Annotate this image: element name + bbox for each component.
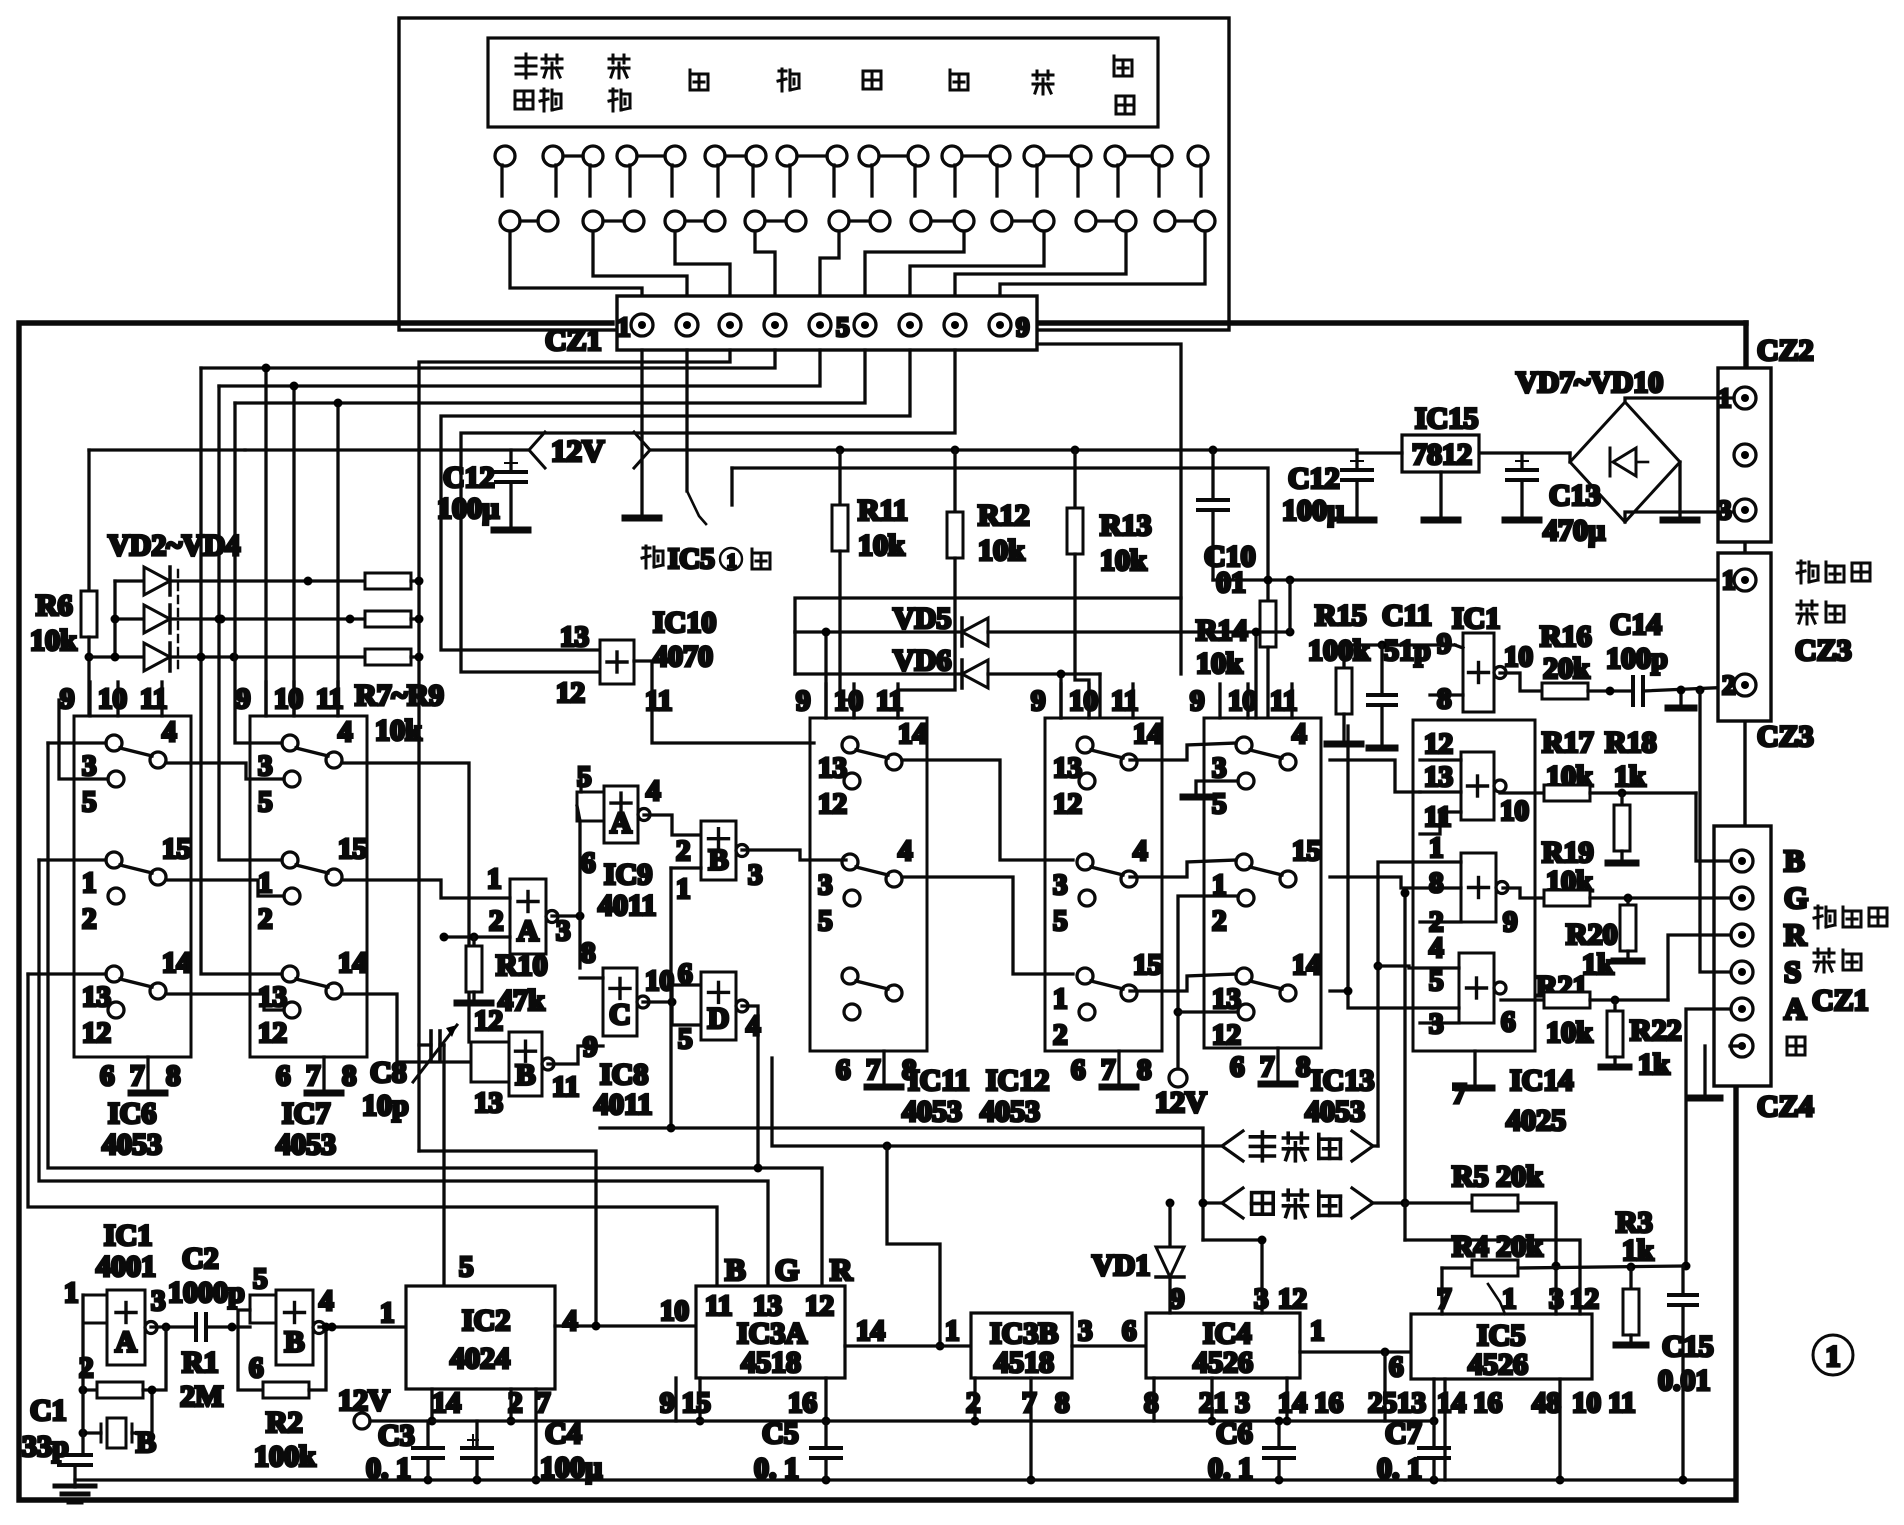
svg-text:R12: R12	[978, 499, 1030, 532]
svg-text:6: 6	[249, 1352, 264, 1384]
wire IC12 throw4 to IC13 common1	[1130, 860, 1236, 877]
svg-text:VD7~VD10: VD7~VD10	[1516, 366, 1663, 399]
svg-text:10: 10	[1500, 795, 1529, 827]
capacitor C13 470u	[1520, 453, 1523, 470]
IC12 4053 analog switch	[1045, 718, 1162, 1051]
wire 12V rail	[245, 448, 527, 451]
svg-text:1: 1	[1826, 1340, 1841, 1373]
svg-text:13: 13	[1212, 983, 1241, 1015]
svg-text:8: 8	[166, 1060, 181, 1092]
wire 7812 out to 12V rail / capacitor C12b	[1357, 451, 1402, 454]
wire IC6 pin5 feed	[59, 700, 108, 779]
svg-text:7: 7	[1260, 1051, 1275, 1083]
svg-text:R6: R6	[36, 589, 73, 622]
svg-text:R20: R20	[1566, 918, 1618, 951]
svg-text:9: 9	[1016, 312, 1030, 342]
wire C14 node down to CZ4 S	[1700, 690, 1730, 972]
svg-text:5: 5	[1212, 788, 1227, 820]
svg-text:CZ4: CZ4	[1757, 1090, 1814, 1123]
svg-text:20k: 20k	[1543, 652, 1590, 685]
wire IC11 throw14 to IC12	[902, 760, 1073, 860]
svg-text:10k: 10k	[1546, 1016, 1593, 1049]
svg-text:12: 12	[818, 788, 847, 820]
gate IC14-3	[1459, 953, 1494, 1023]
svg-text:1: 1	[945, 1315, 960, 1347]
svg-text:6: 6	[276, 1060, 291, 1092]
svg-text:R22: R22	[1630, 1014, 1682, 1047]
wire IC7 throw4 to IC8 B stub	[342, 763, 469, 1042]
wire CZ1 pin8 bus to IC10 pin12/IC9	[461, 350, 955, 672]
svg-text:12: 12	[1570, 1283, 1599, 1315]
wire panel contacts to CZ1 pins	[510, 231, 642, 298]
svg-text:3: 3	[818, 869, 833, 901]
ground IC13 pin5	[1196, 781, 1238, 794]
wire right border into CZ2	[1743, 323, 1748, 368]
diode VD4	[89, 655, 144, 658]
svg-text:10k: 10k	[978, 534, 1025, 567]
svg-text:7: 7	[1022, 1387, 1037, 1419]
svg-text:0. 1: 0. 1	[366, 1452, 411, 1485]
resistor R12 10k	[953, 450, 956, 512]
wire IC7 throw14 to trimmer line	[342, 994, 471, 1062]
svg-text:7: 7	[1452, 1078, 1467, 1110]
svg-text:51p: 51p	[1384, 634, 1431, 667]
svg-text:10: 10	[660, 1295, 689, 1327]
svg-text:12V: 12V	[1155, 1086, 1207, 1119]
svg-text:CZ3: CZ3	[1757, 720, 1814, 753]
svg-text:R13: R13	[1100, 509, 1152, 542]
svg-text:1000p: 1000p	[168, 1276, 245, 1309]
svg-text:4526: 4526	[1468, 1348, 1528, 1381]
wire IC1B out to IC2 pin1	[319, 1325, 406, 1328]
svg-text:13: 13	[1053, 752, 1082, 784]
svg-text:10k: 10k	[1100, 544, 1147, 577]
ground after C14	[1679, 690, 1682, 704]
svg-text:2: 2	[489, 905, 504, 937]
svg-text:1k: 1k	[1638, 1048, 1670, 1081]
svg-text:3: 3	[1053, 869, 1068, 901]
svg-text:10: 10	[1228, 685, 1257, 717]
svg-text:A: A	[610, 807, 632, 840]
node 行消稳 (line blanking)	[1222, 1131, 1243, 1161]
wire line-blank vertical to IC14-2 pin1	[1378, 862, 1461, 1146]
svg-text:13: 13	[82, 981, 111, 1013]
svg-text:4053: 4053	[276, 1128, 336, 1161]
svg-text:15: 15	[338, 833, 367, 865]
svg-text:R: R	[1784, 917, 1807, 952]
svg-text:13: 13	[560, 621, 589, 653]
svg-text:7: 7	[536, 1387, 551, 1419]
svg-text:11: 11	[1424, 801, 1451, 833]
svg-text:5: 5	[82, 786, 97, 818]
svg-text:10: 10	[1069, 685, 1098, 717]
svg-text:C13: C13	[1549, 479, 1601, 512]
svg-text:CZ3: CZ3	[1795, 634, 1852, 667]
IC6 4053 analog switch	[74, 716, 191, 1057]
svg-text:4: 4	[1292, 718, 1307, 750]
svg-text:16: 16	[788, 1387, 817, 1419]
wire second rail to CZ3 pin1	[1213, 578, 1734, 581]
connector CZ4	[1714, 826, 1771, 1086]
svg-text:IC11: IC11	[908, 1064, 970, 1097]
svg-text:12: 12	[1424, 728, 1453, 760]
svg-text:12V: 12V	[551, 433, 605, 468]
svg-text:VD5: VD5	[893, 602, 951, 635]
svg-text:0. 1: 0. 1	[1208, 1452, 1253, 1485]
svg-text:5: 5	[678, 1023, 693, 1055]
label box (pattern names)	[488, 38, 1158, 127]
svg-text:3: 3	[1718, 495, 1732, 525]
svg-text:C12: C12	[443, 461, 495, 494]
svg-text:100p: 100p	[1606, 642, 1668, 675]
capacitor C4 100u electrolytic	[475, 1421, 478, 1448]
diode VD3	[115, 617, 144, 620]
svg-text:8: 8	[1296, 1051, 1311, 1083]
svg-text:1: 1	[676, 873, 691, 905]
connector CZ1	[617, 296, 1037, 350]
svg-text:1: 1	[258, 867, 273, 899]
svg-text:4: 4	[162, 716, 177, 748]
svg-text:10: 10	[98, 683, 127, 715]
gate IC14-2	[1461, 853, 1496, 922]
svg-text:C3: C3	[378, 1419, 415, 1452]
wire R17 node to CZ4 B	[1696, 793, 1730, 861]
svg-text:4: 4	[1133, 835, 1148, 867]
svg-text:100k: 100k	[254, 1440, 316, 1473]
svg-text:14: 14	[1133, 718, 1162, 750]
svg-text:11: 11	[645, 685, 672, 717]
node pattern labels 复彩/合条 彩/条 蓝 绿 红 格 点 棋/盘	[516, 54, 536, 78]
svg-text:8: 8	[1144, 1387, 1159, 1419]
wire IC12 throw14 to IC13 common3	[1130, 743, 1236, 760]
gate IC8D 4011	[701, 972, 736, 1040]
wire 7812 ground pin	[1439, 472, 1442, 515]
wire IC9A stub feed	[579, 768, 582, 792]
svg-text:10: 10	[645, 965, 674, 997]
wire IC4 pins to rails	[1152, 1378, 1155, 1421]
svg-text:4024: 4024	[450, 1342, 510, 1375]
svg-text:C7: C7	[1385, 1417, 1422, 1450]
wire IC6 common13 to B line	[28, 972, 106, 975]
wire trimmer right to IC2 pin5	[442, 1045, 445, 1286]
svg-text:13: 13	[1424, 761, 1453, 793]
resistor R10 47k	[472, 937, 475, 946]
svg-text:IC15: IC15	[1415, 402, 1478, 435]
svg-text:5: 5	[1053, 905, 1068, 937]
svg-text:4526: 4526	[1193, 1346, 1253, 1379]
capacitor C12 100u (left)	[509, 450, 512, 472]
svg-text:1: 1	[487, 863, 502, 895]
IC3B 4518	[971, 1313, 1072, 1378]
svg-text:2M: 2M	[180, 1380, 223, 1413]
svg-text:3: 3	[258, 750, 273, 782]
resistor R8 10k	[365, 611, 411, 627]
svg-text:B: B	[725, 1252, 746, 1287]
wire 12V power rail bottom	[432, 1419, 1434, 1422]
wire CZ2-CZ3 link	[1743, 542, 1746, 553]
svg-text:6: 6	[1071, 1054, 1086, 1086]
svg-text:C6: C6	[1216, 1417, 1253, 1450]
svg-text:9: 9	[1170, 1283, 1185, 1315]
resistor R7 10k	[365, 573, 411, 589]
wire secondary rail y468	[732, 468, 1268, 601]
svg-text:48: 48	[1532, 1387, 1561, 1419]
wire IC13 throw14 to IC14-3 pin5	[1330, 991, 1459, 1008]
svg-text:11: 11	[552, 1071, 579, 1103]
svg-text:5: 5	[836, 312, 850, 342]
svg-text:2: 2	[1722, 670, 1736, 700]
svg-text:12: 12	[82, 1017, 111, 1049]
IC13 4053 analog switch	[1204, 718, 1321, 1048]
crystal B	[107, 1418, 126, 1448]
svg-text:IC1: IC1	[1452, 602, 1500, 635]
svg-text:7812: 7812	[1412, 438, 1472, 471]
svg-text:8: 8	[1437, 683, 1452, 715]
wire bridge right vertex to ground	[1678, 462, 1681, 515]
node 去编码电路 CZ3	[1797, 561, 1818, 583]
svg-text:0. 1: 0. 1	[754, 1452, 799, 1485]
wire bridge to CZ2 pin1	[1625, 398, 1734, 402]
svg-text:3: 3	[556, 915, 571, 947]
svg-text:2: 2	[82, 903, 97, 935]
wire CZ1 pin6 bus to IC7 pin11	[235, 350, 865, 403]
wire IC6 throws cascade to IC7	[166, 763, 284, 779]
wire IC3A pins down	[674, 1378, 677, 1421]
wire IC8C out to IC8D	[643, 1000, 672, 1003]
svg-text:4: 4	[646, 775, 661, 807]
svg-text:2: 2	[676, 835, 691, 867]
wire R7-R9 common column	[411, 579, 419, 582]
svg-text:R7~R9: R7~R9	[355, 679, 444, 712]
IC2 4024 counter	[406, 1286, 555, 1389]
svg-text:8: 8	[581, 937, 596, 969]
svg-text:10: 10	[274, 683, 303, 715]
wire to IC14-3 pin4	[1378, 966, 1459, 968]
svg-text:IC1: IC1	[104, 1219, 152, 1252]
svg-text:8: 8	[1055, 1387, 1070, 1419]
svg-text:7: 7	[1437, 1283, 1452, 1315]
IC11 4053 analog switch	[810, 718, 927, 1051]
svg-text:R2: R2	[266, 1406, 303, 1439]
wire IC9B in1 long net horizontal	[600, 1126, 671, 1129]
svg-text:1k: 1k	[1622, 1234, 1654, 1267]
svg-text:12: 12	[1053, 788, 1082, 820]
node 去编码电路 CZ1	[1814, 906, 1835, 928]
svg-text:7: 7	[1101, 1054, 1116, 1086]
svg-text:4025: 4025	[1506, 1104, 1566, 1137]
svg-text:14: 14	[856, 1315, 885, 1347]
wire bridge to CZ2 pin3	[1625, 512, 1734, 522]
wire IC11 switch feeds	[824, 632, 827, 718]
node circled 1	[1813, 1335, 1853, 1375]
connector CZ3	[1718, 553, 1771, 721]
IC3A 4518	[696, 1286, 845, 1378]
svg-text:10k: 10k	[1196, 647, 1243, 680]
svg-text:4053: 4053	[980, 1095, 1040, 1128]
wire CZ3-CZ4 link	[1743, 721, 1746, 826]
top panel enclosure	[399, 18, 1229, 330]
svg-text:8: 8	[1137, 1054, 1152, 1086]
svg-text:C2: C2	[182, 1242, 219, 1275]
svg-text:R10: R10	[496, 949, 548, 982]
svg-text:100µ: 100µ	[540, 1451, 602, 1484]
svg-text:8: 8	[342, 1060, 357, 1092]
svg-text:5: 5	[1429, 965, 1444, 997]
svg-text:10p: 10p	[362, 1089, 409, 1122]
wire CZ1 pin7 bus to IC10 pin13	[441, 350, 910, 650]
svg-text:2: 2	[258, 903, 273, 935]
svg-text:5: 5	[258, 786, 273, 818]
wire top border right of CZ1	[1037, 320, 1746, 325]
svg-text:R17: R17	[1542, 726, 1594, 759]
svg-text:11: 11	[705, 1290, 732, 1322]
svg-text:4: 4	[1429, 932, 1444, 964]
svg-text:VD6: VD6	[893, 644, 951, 677]
svg-text:10: 10	[1504, 641, 1533, 673]
svg-text:3: 3	[1212, 752, 1227, 784]
svg-text:4001: 4001	[96, 1250, 156, 1283]
svg-text:6: 6	[100, 1060, 115, 1092]
node 场消稳 (field blanking)	[1222, 1188, 1243, 1218]
wire IC13 throw4 to IC14-1	[1330, 760, 1420, 792]
svg-text:4: 4	[898, 835, 913, 867]
wire IC3B out to IC4	[1072, 1344, 1146, 1347]
svg-text:47k: 47k	[498, 984, 545, 1017]
svg-text:5: 5	[459, 1251, 474, 1283]
wire IC1A input node	[81, 1295, 84, 1455]
svg-text:14: 14	[898, 718, 927, 750]
svg-text:6: 6	[581, 847, 596, 879]
svg-text:21 3: 21 3	[1199, 1387, 1250, 1419]
svg-text:2: 2	[79, 1352, 94, 1384]
wire R21 node to CZ4 R	[1668, 935, 1730, 1000]
wire CZ1 pin4 bus to IC7 pin9	[201, 350, 775, 368]
svg-text:R4 20k: R4 20k	[1452, 1230, 1543, 1263]
svg-text:G: G	[775, 1252, 799, 1287]
svg-text:7: 7	[130, 1060, 145, 1092]
svg-text:10k: 10k	[375, 714, 422, 747]
svg-text:IC10: IC10	[653, 606, 716, 639]
svg-text:S: S	[1784, 954, 1801, 989]
wire IC9B out to IC11	[742, 850, 846, 860]
resistor R14 10k	[1260, 601, 1276, 647]
wire IC10 output 11	[634, 661, 814, 743]
svg-text:470µ: 470µ	[1543, 514, 1605, 547]
svg-text:9: 9	[60, 683, 75, 715]
svg-text:9 15: 9 15	[660, 1387, 711, 1419]
wire CZ1 pin3 bus long column	[419, 350, 730, 1151]
capacitor C10 0.01	[1211, 450, 1214, 500]
wire IC7 throw15 to IC8 gateA in1	[342, 880, 441, 898]
svg-text:14: 14	[338, 947, 367, 979]
svg-text:C14: C14	[1610, 608, 1662, 641]
wire IC5 pin12 feed	[1405, 1240, 1580, 1314]
svg-text:12: 12	[556, 677, 585, 709]
svg-text:3: 3	[82, 750, 97, 782]
wire IC8D output down	[742, 1006, 758, 1168]
svg-text:CZ1: CZ1	[545, 324, 602, 357]
IC4 4526 counter	[1146, 1313, 1300, 1378]
svg-text:6: 6	[836, 1054, 851, 1086]
svg-text:B: B	[708, 843, 728, 876]
svg-text:1: 1	[1722, 565, 1736, 595]
svg-text:6: 6	[1122, 1315, 1137, 1347]
svg-text:2513: 2513	[1368, 1387, 1426, 1419]
wire ground rail bottom	[75, 1478, 1736, 1481]
svg-text:3: 3	[748, 859, 763, 891]
svg-text:CZ1: CZ1	[1812, 984, 1869, 1017]
svg-text:4: 4	[563, 1305, 578, 1337]
svg-text:1: 1	[1429, 832, 1444, 864]
svg-text:IC2: IC2	[462, 1304, 510, 1337]
svg-text:A: A	[115, 1326, 137, 1359]
capacitor C12 100u (right)	[1355, 450, 1358, 470]
wire IC3B pins to rails	[973, 1378, 976, 1421]
svg-text:10k: 10k	[858, 529, 905, 562]
IC7 4053 analog switch	[250, 716, 367, 1057]
svg-text:6: 6	[1501, 1006, 1516, 1038]
svg-text:15: 15	[1292, 835, 1321, 867]
svg-text:14 16: 14 16	[1437, 1387, 1502, 1419]
svg-text:C4: C4	[545, 1417, 582, 1450]
svg-text:C8: C8	[370, 1056, 407, 1089]
svg-text:100k: 100k	[1308, 634, 1370, 667]
svg-text:3: 3	[151, 1285, 166, 1317]
wire IC12 throw15 to IC13 common13	[1130, 974, 1236, 991]
wire IC5 pin1 switch mark	[1488, 1284, 1505, 1314]
svg-text:8: 8	[1429, 867, 1444, 899]
svg-text:9: 9	[1503, 906, 1518, 938]
svg-text:6: 6	[678, 958, 693, 990]
wire IC11 throw4 to IC12	[902, 877, 1073, 974]
contact pairs row	[500, 211, 520, 231]
svg-text:IC13: IC13	[1311, 1064, 1374, 1097]
wire IC2 out4 to IC3A pin10	[555, 1324, 696, 1327]
svg-text:10: 10	[834, 685, 863, 717]
node 接IC5(1)脚 callout	[685, 350, 688, 491]
svg-text:C: C	[609, 998, 631, 1031]
wire IC9B in1 from field line	[671, 866, 701, 869]
svg-text:1: 1	[727, 551, 737, 572]
svg-text:2: 2	[966, 1387, 981, 1419]
svg-text:7: 7	[306, 1060, 321, 1092]
svg-text:R5 20k: R5 20k	[1452, 1160, 1543, 1193]
svg-text:14: 14	[162, 947, 191, 979]
svg-text:C12: C12	[1288, 462, 1340, 495]
svg-text:1: 1	[617, 312, 631, 342]
IC5 4526 counter	[1411, 1314, 1592, 1379]
svg-text:1: 1	[64, 1277, 79, 1309]
resistor R11 10k	[838, 450, 841, 505]
svg-text:4053: 4053	[102, 1128, 162, 1161]
svg-text:10k: 10k	[30, 624, 77, 657]
wire IC5 pins to rails	[1383, 1352, 1386, 1421]
wire trimmer line to IC2 pin4	[419, 1151, 596, 1326]
svg-text:4518: 4518	[994, 1346, 1054, 1379]
wire IC4 pin3/12 feeds	[1203, 1240, 1262, 1313]
wire IC4 out1 to IC5	[1300, 1350, 1411, 1353]
svg-text:4: 4	[319, 1285, 334, 1317]
svg-text:14: 14	[432, 1387, 461, 1419]
svg-text:12: 12	[258, 1017, 287, 1049]
svg-text:C5: C5	[762, 1417, 799, 1450]
wire IC13 throw15 to IC14-2 pin8	[1330, 877, 1461, 888]
wire feed column left of IC14	[1346, 726, 1349, 991]
svg-text:CZ2: CZ2	[1757, 334, 1814, 367]
svg-text:4011: 4011	[598, 889, 656, 922]
svg-text:4518: 4518	[741, 1346, 801, 1379]
svg-text:10 11: 10 11	[1572, 1387, 1636, 1419]
